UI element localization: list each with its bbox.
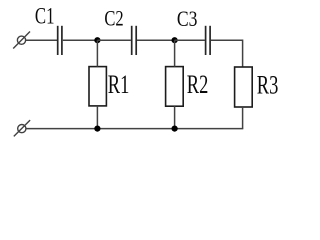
svg-text:C1: C1	[35, 4, 55, 29]
capacitor C1	[58, 26, 62, 55]
resistor R2	[166, 67, 184, 107]
wire (R3 bottom to rail corner)	[242, 107, 244, 129]
node B (junction C2/C3/R2)	[172, 37, 178, 43]
resistor R3	[235, 67, 253, 107]
wire (node B to R2 top)	[174, 40, 176, 66]
svg-text:C2: C2	[104, 7, 123, 31]
capacitor C2	[132, 26, 137, 55]
wire	[26, 39, 57, 41]
wire (R1 bottom to rail)	[96, 106, 98, 129]
wire (C3 to top-right corner, down to R3)	[211, 40, 243, 67]
svg-text:R2: R2	[187, 70, 209, 99]
wire	[175, 39, 205, 41]
svg-text:C3: C3	[177, 7, 198, 31]
node C (junction rail/R1)	[94, 126, 100, 132]
node A (junction C1/C2/R1)	[94, 37, 100, 43]
wire (node A to R1 top)	[96, 40, 98, 66]
terminal XS1 (top input)	[13, 32, 30, 49]
wire (R2 bottom to rail)	[174, 106, 176, 128]
wire	[97, 39, 130, 41]
wire	[63, 39, 98, 41]
node D (junction rail/R2)	[172, 126, 178, 132]
wire	[137, 39, 175, 41]
capacitor C3	[206, 26, 211, 55]
wire (bottom rail)	[26, 128, 243, 130]
terminal XS2 (bottom input)	[14, 120, 30, 136]
svg-text:R3: R3	[257, 71, 279, 100]
resistor R1	[89, 67, 106, 106]
svg-text:R1: R1	[108, 70, 130, 99]
